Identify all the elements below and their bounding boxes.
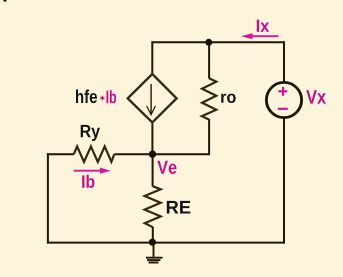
dependent source arrow [147,84,156,115]
resistor ro [202,78,217,119]
wire RE bottom stub [152,227,154,243]
wire left rail [47,153,49,243]
Vx minus sign [278,108,288,110]
wire diamond bottom stub [151,122,153,155]
label hfe [76,90,97,104]
label Ry [81,125,100,141]
junction dot top (ro / top wire) [205,39,212,46]
resistor Ry [74,146,115,162]
label Vx [306,90,326,103]
label Ib-a [82,175,94,188]
wire stub diamond top [151,41,153,74]
label ro [221,94,236,103]
wire right rail lower [283,117,285,243]
arrow Ib [74,168,111,174]
resistor RE [145,186,161,227]
wire Ry left stub [47,153,74,155]
arrow Ix [241,33,278,39]
Vx plus sign [278,87,287,96]
wire top horizontal [152,41,284,43]
label Ix [257,20,269,32]
corner artifact [4,0,7,2]
wire Ry right to node Ve [114,153,152,155]
voltage source Vx circle [266,82,301,117]
wire RE top stub [152,154,154,186]
asterisk of hfe*Ib [101,96,104,100]
label Ib-d [107,90,117,103]
wire stub ro top [208,42,210,78]
wire bottom horizontal [47,242,285,244]
label RE [167,201,191,214]
dependent current source U1 diamond [128,74,177,123]
wire node Ve to ro bottom [152,119,209,154]
ground [146,242,163,263]
wire right rail upper [283,41,285,82]
label Ve [157,161,176,174]
junction node Ve [149,150,156,157]
junction bottom (ground) [149,239,156,246]
